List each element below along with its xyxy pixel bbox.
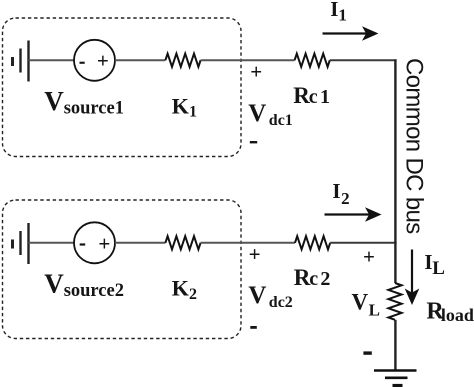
svg-text:source1: source1: [64, 99, 124, 119]
svg-text:+: +: [363, 245, 375, 269]
svg-text:2: 2: [341, 189, 350, 208]
svg-text:+: +: [249, 242, 261, 266]
svg-text:V: V: [44, 86, 64, 116]
svg-text:load: load: [441, 305, 474, 325]
svg-text:V: V: [248, 100, 266, 127]
svg-text:1: 1: [338, 6, 347, 25]
svg-text:K: K: [172, 276, 189, 301]
svg-text:V: V: [352, 289, 369, 314]
svg-text:L: L: [369, 301, 380, 320]
svg-text:K: K: [172, 93, 189, 118]
svg-text:c: c: [309, 268, 318, 290]
svg-text:L: L: [432, 258, 445, 279]
svg-text:2: 2: [320, 268, 330, 290]
svg-text:R: R: [293, 83, 310, 108]
svg-text:Common DC bus: Common DC bus: [401, 58, 428, 234]
svg-text:V: V: [248, 282, 266, 309]
svg-text:dc1: dc1: [269, 112, 293, 129]
svg-text:1: 1: [189, 104, 197, 121]
svg-text:+: +: [97, 49, 109, 73]
svg-text:dc2: dc2: [269, 294, 293, 311]
svg-text:R: R: [294, 265, 311, 290]
svg-text:V: V: [44, 268, 64, 298]
svg-text:+: +: [250, 60, 262, 84]
svg-text:2: 2: [189, 286, 197, 303]
svg-text:I: I: [330, 0, 338, 21]
svg-text:source2: source2: [64, 281, 124, 301]
svg-text:+: +: [98, 231, 110, 255]
svg-text:1: 1: [320, 86, 330, 108]
svg-text:I: I: [332, 179, 340, 203]
svg-text:c: c: [309, 86, 318, 108]
